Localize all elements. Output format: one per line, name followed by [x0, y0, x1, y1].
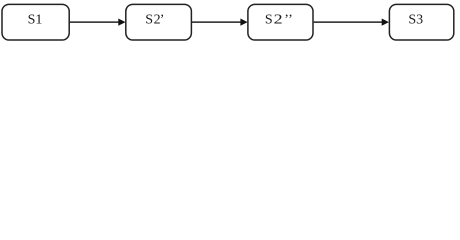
wire arrow 3 shaft — [314, 21, 383, 23]
wire arrow 2 shaft — [192, 21, 242, 23]
arrowhead 3 — [382, 19, 389, 26]
svg-text:S2’: S2’ — [145, 13, 164, 28]
svg-text:S3: S3 — [408, 13, 423, 28]
arrowhead 1 — [118, 19, 125, 26]
wire arrow 1 shaft — [70, 21, 120, 23]
box S3 — [389, 4, 453, 40]
svg-text:S1: S1 — [28, 13, 43, 28]
box S2'' — [248, 4, 313, 40]
box S1 — [2, 4, 69, 40]
box S2' — [126, 4, 192, 40]
arrowhead 2 — [240, 19, 247, 26]
svg-text:S2’’: S2’’ — [265, 13, 293, 28]
